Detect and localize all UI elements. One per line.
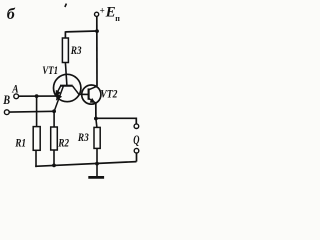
node: emitter junction (94, 117, 98, 121)
wire: B junction down to R2 (53, 111, 55, 127)
wire: +Eп rail down to VT2 collector (96, 17, 98, 87)
VT1 collector diagonal (73, 86, 79, 94)
resistor R3 (bottom) (94, 127, 100, 148)
wire: R3 to VT1 base (65, 63, 67, 86)
label VT2 (100, 88, 118, 101)
output terminal 2 (134, 148, 139, 153)
wire: input B line (9, 110, 54, 113)
label A (11, 84, 18, 96)
node: B line junction (52, 109, 56, 113)
svg-text:R3: R3 (77, 131, 89, 144)
wire: R1 to bus (34, 150, 37, 166)
wire: bottom bus (35, 162, 136, 167)
VT1 emitter 2 arrow (56, 94, 62, 101)
wire: rail to R3 top (65, 30, 97, 33)
output terminal 1 (134, 124, 139, 129)
svg-text:R1: R1 (14, 136, 26, 149)
svg-text:б: б (7, 6, 16, 23)
stray tick mark (65, 4, 67, 7)
resistor R3 (top) (62, 38, 68, 63)
wire: VT2 emitter down (95, 103, 97, 119)
VT1 emitter 2 (to B) (54, 86, 63, 111)
svg-text:VT1: VT1 (42, 65, 58, 77)
label B (2, 94, 10, 107)
label R1 (14, 136, 26, 149)
label Q (133, 133, 139, 147)
node: R2 bus junction (52, 164, 56, 168)
transistor VT1 (53, 74, 80, 101)
node: ground junction (95, 162, 99, 166)
wire: down to R3 (64, 31, 66, 38)
wire: emitter junction down to R3 bottom (96, 119, 97, 128)
resistor R1 (33, 127, 40, 151)
wire: input A line (19, 95, 56, 97)
input terminal B (4, 110, 9, 115)
VT2 emitter arrow (90, 98, 96, 103)
VT2 collector diagonal (89, 86, 98, 90)
svg-text:R3: R3 (70, 44, 82, 57)
svg-text:+: + (100, 6, 105, 16)
svg-text:R2: R2 (57, 136, 69, 149)
resistor R2 (51, 127, 58, 150)
VT1 emitter 1 arrow (55, 90, 61, 97)
wire: R2 to bus (53, 150, 55, 166)
wire: R3 bottom to bus (96, 148, 98, 164)
VT1 base bar (60, 85, 73, 87)
VT1 emitter 1 (to A) (55, 86, 60, 96)
label R2 (57, 136, 69, 149)
svg-text:Q: Q (133, 133, 139, 147)
svg-text:B: B (2, 94, 10, 107)
wire: A line down to R1 (36, 96, 38, 127)
svg-text:E: E (105, 5, 116, 21)
VT2 emitter diagonal (89, 98, 96, 103)
transistor VT2 (82, 85, 101, 104)
node: A line junction (35, 94, 39, 98)
VT2 base bar (88, 88, 90, 99)
wire: to output terminal 1 (96, 118, 136, 124)
svg-text:A: A (11, 84, 18, 96)
svg-text:VT2: VT2 (100, 88, 118, 101)
node: rail junction (95, 29, 99, 33)
label R3 (bottom) (77, 131, 89, 144)
ground (96, 164, 98, 177)
paper background (0, 0, 144, 183)
wire: output terminal 2 to bottom bus (136, 153, 138, 162)
svg-text:п: п (115, 14, 120, 23)
input terminal A (14, 94, 19, 99)
label R3 (top) (70, 44, 82, 57)
wire: VT1 collector to VT2 base (79, 93, 89, 95)
terminal +Eп (95, 12, 99, 16)
label VT1 (42, 65, 58, 77)
